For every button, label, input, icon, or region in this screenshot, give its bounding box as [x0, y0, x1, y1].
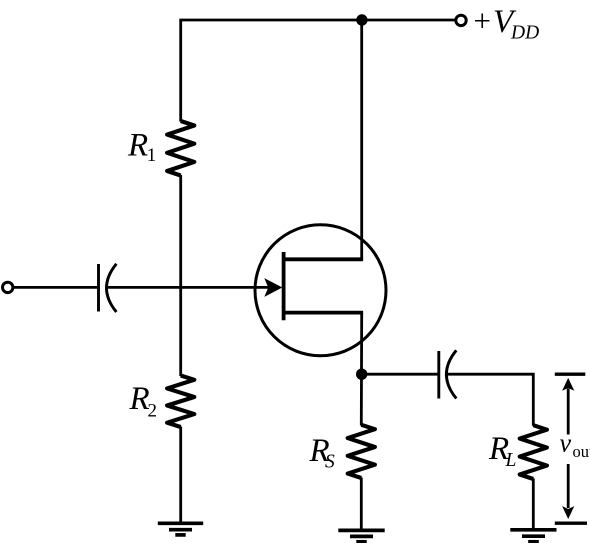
svg-text:v: v — [560, 429, 572, 458]
transistor Q1 gate bar — [282, 252, 286, 320]
transistor Q1 drain lead — [284, 257, 364, 261]
wire RS to ground — [360, 478, 363, 531]
svg-text:S: S — [325, 451, 335, 472]
transistor Q1 source lead — [284, 311, 364, 315]
wire RL to ground — [532, 479, 535, 530]
svg-text:1: 1 — [147, 145, 157, 166]
vout arrow lower (pointing down) — [567, 464, 570, 508]
capacitor C-out (curved plate) — [446, 350, 456, 398]
svg-text:2: 2 — [148, 401, 158, 422]
wire capacitor to load branch — [447, 374, 534, 426]
svg-text:DD: DD — [510, 23, 539, 44]
vout dimension bottom tick — [555, 522, 587, 525]
wire drain vertical from top rail to JFET drain lead — [360, 20, 363, 259]
ground (middle, under RS) — [338, 530, 384, 541]
svg-text:out: out — [573, 442, 590, 461]
node drain junction dot — [356, 14, 367, 25]
vout arrow upper (pointing up) — [562, 378, 574, 391]
resistor RS — [348, 425, 375, 478]
label vout — [560, 429, 590, 462]
resistor R1 — [167, 121, 194, 176]
wire bias line between R1 and R2 — [179, 175, 182, 376]
svg-text:R: R — [129, 381, 150, 417]
wire source junction to output capacitor — [362, 373, 439, 376]
gate arrowhead — [265, 279, 281, 296]
label RS — [309, 433, 336, 473]
vout dimension top tick — [555, 373, 586, 376]
capacitor C-in (flat plate) — [97, 264, 100, 312]
capacitor C-in (curved plate) — [107, 264, 117, 312]
ground (left, under R2) — [158, 523, 203, 535]
node source junction dot — [356, 369, 367, 380]
label R2 — [129, 381, 158, 422]
wire input to coupling capacitor — [13, 286, 99, 289]
svg-text:R: R — [127, 127, 148, 163]
label +VDD — [474, 3, 540, 44]
svg-text:L: L — [505, 450, 517, 471]
capacitor C-out (flat plate) — [437, 351, 440, 399]
wire gate from capacitor to JFET (crosses bias line, no dot) — [107, 286, 272, 289]
resistor RL — [520, 425, 547, 479]
terminal +VDD open circle — [456, 15, 466, 25]
wire top rail from R1 top to +VDD terminal — [181, 20, 456, 122]
ground (right, under RL) — [510, 530, 556, 542]
resistor R2 — [167, 376, 194, 428]
terminal input open circle — [3, 282, 13, 292]
transistor Q1 JFET body circle — [255, 225, 386, 356]
svg-text:+: + — [474, 3, 491, 38]
wire source vertical to junction — [360, 313, 363, 426]
label R1 — [127, 127, 156, 166]
wire R2 to ground — [179, 427, 182, 524]
label RL — [488, 431, 516, 471]
